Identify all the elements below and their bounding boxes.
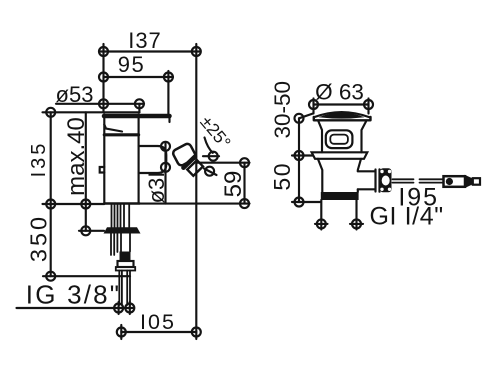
label 1G 3/8 [26,280,121,310]
tick 59 top [198,162,250,164]
pull rod segment 1 [393,179,414,182]
flex hose 2 [127,271,130,306]
countertop line right [140,203,250,205]
pull rod segment 2 [420,179,444,182]
svg-text:±25°: ±25° [196,112,235,152]
svg-text:ø3I: ø3I [144,172,169,204]
marker diam63 right [364,99,373,114]
marker 30-50 top [295,114,304,123]
dim marker 59 top [240,158,249,167]
side outlet stub [358,171,375,189]
dim marker 137 left [99,47,108,56]
hose tails cut [111,234,117,256]
clevis pin [446,178,453,185]
temperature tab [100,167,105,173]
dimension 135 line [50,112,52,204]
label 135 [28,141,50,178]
rod end piece [473,178,480,185]
hoses inside shank [112,204,130,228]
leader plusminus25 [205,138,213,153]
svg-text:IG 3/8": IG 3/8" [26,280,121,310]
body taper below collar [318,159,361,192]
spray holder bulge [139,146,167,173]
marker hose left [114,302,123,314]
tick 30-50 top [299,114,313,119]
dim marker 105 left [117,325,126,339]
label 137 [128,28,162,53]
hose thread reference line y=308 [17,307,134,309]
countertop line left [43,203,105,205]
overflow hole inner [330,135,348,144]
label diam53 [56,82,94,107]
threaded hose end [120,252,131,262]
dim marker 105 right [192,328,201,340]
svg-text:I37: I37 [128,28,162,53]
dimension 105 line [121,331,196,333]
label max40 [63,117,90,196]
tick swivel bottom [204,169,217,176]
dimension 59 line [243,163,245,204]
marker mid [295,151,304,160]
mounting nut [104,227,141,233]
svg-text:Ø 63: Ø 63 [315,80,364,105]
flange bottom thick shelf [104,114,170,119]
dim marker 59 bottom [240,199,249,208]
gasket collar [312,152,368,159]
upper body taper [319,122,367,153]
faucet flange / cartridge cap [104,115,138,204]
dim marker 95 right [164,73,173,82]
label 95 [118,52,145,77]
dim marker 135 top [46,108,55,117]
threaded band [321,192,359,200]
reference line top of flange (y=112.3) [43,111,140,113]
marker tail left [315,219,328,228]
tailpipe [321,200,356,230]
dim marker 135 bottom [46,200,55,209]
svg-text:350: 350 [26,214,52,262]
svg-text:I95: I95 [398,184,439,212]
collar band [104,133,138,136]
reference line 350 bottom [43,275,130,277]
ball nut highlight [380,170,391,191]
svg-text:I35: I35 [28,141,50,178]
dimension diam31 line [164,142,166,204]
label diam63 [315,80,364,105]
svg-text:95: 95 [118,52,145,77]
rod wedge [465,175,473,188]
label 195 [398,184,439,212]
outlet nut band [376,169,380,191]
extension line spray holder (x=168.4) [167,71,169,115]
svg-text:59: 59 [220,171,247,198]
marker swivel top [209,152,218,161]
extension line left (x=103.5) [102,44,104,112]
tick max40 bottom [79,230,104,232]
marker diam63 left [309,99,318,114]
dim marker max40 bottom [81,226,90,235]
dim marker diam53 right [135,99,144,112]
dim marker diam31 top [161,142,170,151]
tick swivel top [203,155,219,157]
label 50 [269,162,295,191]
flex hose 1 [119,271,122,306]
label 350 [26,214,52,262]
dim marker 137 right [192,47,201,56]
shelf hook [168,118,170,122]
tick mid collar [292,154,313,156]
marker swivel bottom [205,167,214,176]
dim marker diam31 bottom [161,163,170,172]
dimension 95 line [104,76,174,78]
marker tail right [350,219,363,228]
dimension 350 line [50,204,52,276]
svg-text:max.40: max.40 [63,117,90,196]
label plusminus25 [196,112,235,152]
svg-text:30-50: 30-50 [270,81,295,139]
drain flange top arc [314,112,370,117]
svg-text:I05: I05 [140,310,176,334]
knurled ball nut [380,168,392,192]
hose coupler [116,261,135,271]
svg-text:50: 50 [269,162,295,191]
label 30-50 [270,81,295,139]
spray head [172,143,197,167]
dim marker 350 bottom [46,272,55,281]
dimension max40 line [85,112,87,231]
base bottom [104,202,139,204]
dimension diam63 line [314,103,369,105]
dim marker diam53 left [99,99,108,108]
svg-text:ø53: ø53 [56,82,94,107]
drain flange bottom rim [314,117,371,120]
label diam31 [144,172,169,204]
label 59 [220,171,247,198]
left dim column line [298,118,300,202]
tick bottom [292,201,320,203]
marker 50 bottom [295,198,304,207]
extension line right tall (x=196.3) [195,44,197,332]
dimension 137 line [99,50,201,52]
rod clevis [444,176,466,187]
marker hose right [125,302,134,314]
dim marker max40 top [81,200,90,209]
cap lever slot diagonal [104,125,122,132]
dim marker 95 left [99,73,108,82]
label 105 [140,310,176,334]
label G1 1/4 [370,203,444,231]
dimension diam53 line [56,103,144,105]
shank below nut [121,234,130,252]
overflow hole outer [326,130,353,148]
drain plug cap lens [319,113,365,119]
